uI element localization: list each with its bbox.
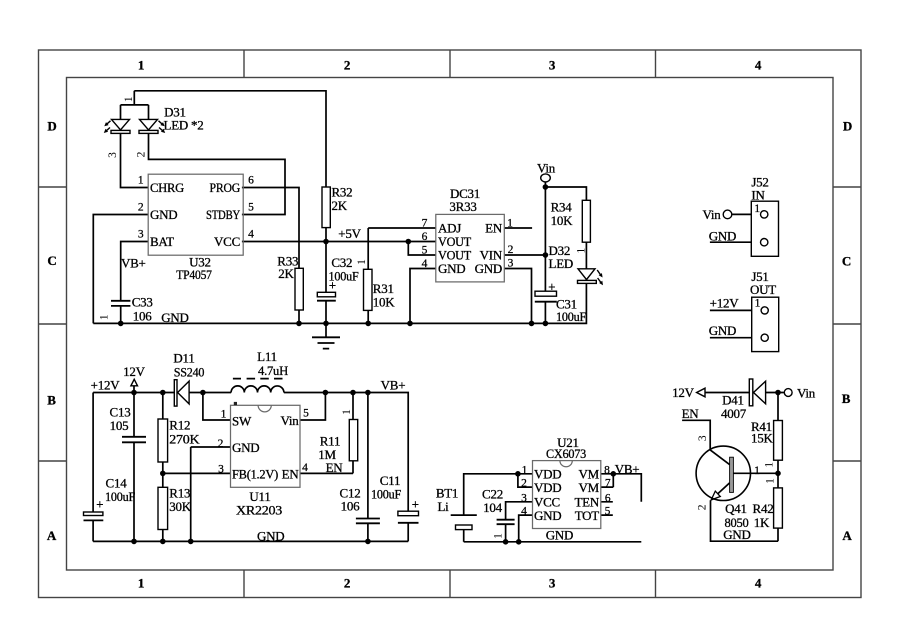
svg-text:3: 3 [138,229,144,241]
svg-text:100uF: 100uF [556,309,586,324]
svg-text:1: 1 [138,576,144,591]
svg-text:4: 4 [302,462,308,474]
svg-text:C: C [842,254,851,269]
svg-text:Vin: Vin [797,385,816,400]
svg-text:1: 1 [356,259,368,265]
svg-text:GND: GND [546,527,573,542]
svg-text:270K: 270K [169,432,200,447]
svg-text:SW: SW [232,414,252,429]
svg-text:GND: GND [161,310,188,325]
svg-text:LED: LED [549,256,574,271]
svg-text:+12V: +12V [710,296,740,311]
svg-text:R11: R11 [320,433,340,448]
svg-text:2K: 2K [278,266,294,281]
svg-text:1: 1 [138,175,144,187]
svg-text:L11: L11 [257,349,277,364]
svg-text:GND: GND [475,261,502,276]
svg-text:BAT: BAT [150,234,174,249]
svg-text:1: 1 [123,96,135,102]
svg-text:6: 6 [248,175,254,187]
svg-text:2: 2 [697,504,709,510]
svg-text:1: 1 [754,203,760,215]
svg-text:6: 6 [605,492,611,504]
svg-text:XR2203: XR2203 [236,503,282,518]
svg-text:B: B [47,393,56,408]
svg-text:1: 1 [764,478,776,484]
svg-text:C: C [47,253,56,268]
svg-text:1: 1 [221,409,227,421]
svg-text:VB+: VB+ [615,461,640,476]
svg-text:+5V: +5V [338,226,361,241]
svg-text:1: 1 [138,58,144,73]
svg-text:106: 106 [341,499,361,514]
svg-text:+: + [412,497,420,512]
svg-text:3: 3 [508,258,514,270]
svg-text:GND: GND [150,207,177,222]
svg-text:3: 3 [218,464,224,476]
svg-text:VM: VM [579,480,600,495]
svg-text:VCC: VCC [214,234,240,249]
svg-text:5: 5 [605,506,611,518]
svg-text:IN: IN [751,187,765,202]
svg-text:C13: C13 [110,404,131,419]
svg-text:GND: GND [709,323,736,338]
svg-text:FB(1.2V): FB(1.2V) [232,467,278,482]
svg-text:7: 7 [422,218,428,230]
svg-text:GND: GND [709,228,736,243]
svg-text:+: + [96,497,104,512]
svg-text:+: + [548,279,556,294]
svg-text:R13: R13 [169,485,190,500]
svg-text:SS240: SS240 [174,365,205,380]
svg-text:12V: 12V [672,385,695,400]
svg-text:2: 2 [218,438,224,450]
svg-text:1: 1 [755,297,761,309]
svg-text:1: 1 [99,314,111,320]
svg-text:1K: 1K [754,515,770,530]
svg-text:CHRG: CHRG [150,180,184,195]
svg-text:7: 7 [605,478,611,490]
svg-text:1: 1 [493,533,505,539]
svg-text:1: 1 [764,462,776,468]
svg-text:GND: GND [257,529,284,544]
svg-text:3: 3 [549,58,556,73]
svg-text:4: 4 [755,58,762,73]
svg-text:D11: D11 [173,351,194,366]
svg-text:105: 105 [110,418,129,433]
svg-text:5: 5 [303,408,309,420]
svg-text:2: 2 [344,58,350,73]
svg-text:12V: 12V [123,364,146,379]
svg-text:VB+: VB+ [121,256,146,271]
svg-text:Vin: Vin [703,207,722,222]
svg-text:GND: GND [438,261,465,276]
svg-text:5: 5 [422,245,428,257]
svg-text:3R33: 3R33 [449,199,476,214]
svg-text:1: 1 [507,218,513,230]
svg-text:EN: EN [682,406,700,421]
svg-text:1: 1 [341,409,353,415]
svg-text:4.7uH: 4.7uH [258,363,288,378]
svg-text:Vin: Vin [281,413,300,428]
svg-text:D: D [47,119,56,134]
svg-text:A: A [842,528,852,543]
svg-text:30K: 30K [169,499,192,514]
svg-text:EN: EN [326,460,344,475]
svg-text:GND: GND [232,440,259,455]
svg-text:TP4057: TP4057 [176,267,212,282]
svg-text:3: 3 [107,152,119,158]
svg-text:100uF: 100uF [371,486,401,501]
svg-text:1: 1 [754,465,760,477]
svg-text:EN: EN [485,221,503,236]
svg-text:15K: 15K [751,431,774,446]
svg-text:2: 2 [138,202,144,214]
svg-text:+12V: +12V [91,378,121,393]
svg-text:C33: C33 [132,295,153,310]
svg-text:Li: Li [437,499,449,514]
svg-text:R42: R42 [753,501,774,516]
svg-text:Vin: Vin [537,161,556,176]
svg-text:8: 8 [604,464,610,476]
svg-text:4007: 4007 [721,406,747,421]
svg-text:GND: GND [723,527,750,542]
svg-text:6: 6 [422,231,428,243]
svg-text:B: B [842,391,851,406]
svg-text:Q41: Q41 [725,501,747,516]
svg-text:5: 5 [248,202,254,214]
svg-text:LED *2: LED *2 [164,118,204,133]
svg-text:3: 3 [549,576,556,591]
svg-text:4: 4 [521,506,527,518]
svg-text:3: 3 [697,435,709,441]
svg-text:+: + [329,278,337,293]
svg-text:D: D [843,119,852,134]
svg-text:4: 4 [755,576,762,591]
svg-text:CX6073: CX6073 [546,446,586,461]
svg-text:2: 2 [136,151,148,157]
svg-text:1: 1 [576,247,588,253]
svg-text:2: 2 [521,478,527,490]
svg-text:OUT: OUT [750,282,776,297]
svg-text:STDBY: STDBY [206,207,241,222]
svg-text:10K: 10K [373,295,396,310]
svg-text:2K: 2K [332,198,348,213]
svg-text:3: 3 [521,492,527,504]
svg-text:R12: R12 [169,418,190,433]
svg-text:TOT: TOT [575,508,600,523]
svg-text:VB+: VB+ [381,378,406,393]
svg-text:4: 4 [422,258,428,270]
svg-text:2: 2 [344,576,350,591]
svg-text:A: A [47,528,57,543]
svg-text:EN: EN [282,467,300,482]
svg-text:GND: GND [534,508,561,523]
svg-text:4: 4 [248,229,254,241]
svg-text:10K: 10K [551,213,574,228]
svg-text:VDD: VDD [534,480,561,495]
svg-text:PROG: PROG [210,180,241,195]
svg-text:2: 2 [508,244,514,256]
svg-text:1: 1 [522,464,528,476]
svg-text:106: 106 [133,309,153,324]
svg-text:104: 104 [483,500,503,515]
svg-text:100uF: 100uF [105,489,135,504]
